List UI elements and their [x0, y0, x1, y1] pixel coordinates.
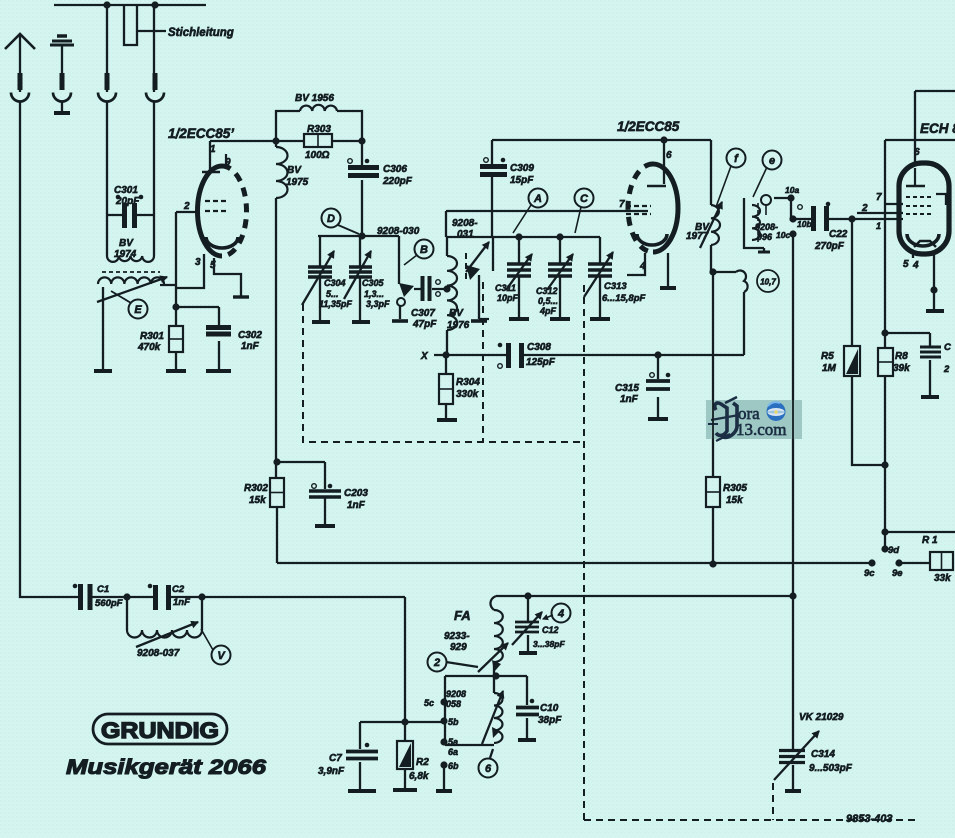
svg-text:270pF: 270pF: [814, 241, 845, 252]
svg-text:0,5...: 0,5...: [538, 296, 558, 306]
svg-text:C304: C304: [324, 278, 346, 288]
svg-text:C313: C313: [604, 281, 627, 292]
svg-text:6: 6: [666, 150, 672, 161]
svg-text:1,3...: 1,3...: [364, 289, 384, 299]
svg-text:031: 031: [457, 229, 474, 240]
svg-text:5b: 5b: [448, 717, 459, 727]
svg-text:9...503pF: 9...503pF: [809, 763, 853, 774]
svg-text:C305: C305: [362, 278, 385, 288]
svg-text:38pF: 38pF: [538, 715, 562, 726]
svg-text:-058: -058: [443, 699, 461, 709]
svg-text:C10: C10: [540, 703, 559, 714]
svg-text:9208-: 9208-: [452, 218, 478, 229]
svg-text:C309: C309: [510, 163, 534, 174]
svg-text:R5: R5: [821, 351, 834, 362]
svg-text:Stichleitung: Stichleitung: [168, 27, 234, 39]
svg-text:C7: C7: [329, 753, 342, 764]
svg-text:2: 2: [943, 364, 950, 375]
svg-text:1nF: 1nF: [347, 500, 366, 511]
svg-text:39k: 39k: [893, 363, 910, 374]
svg-text:4: 4: [557, 608, 564, 620]
svg-text:R301: R301: [140, 331, 164, 342]
svg-text:ECH 8: ECH 8: [920, 121, 955, 136]
svg-text:33k: 33k: [934, 573, 951, 584]
svg-text:5: 5: [903, 259, 909, 270]
svg-text:1/2ECC85: 1/2ECC85: [617, 119, 680, 134]
svg-text:6b: 6b: [448, 761, 459, 771]
svg-text:096: 096: [757, 232, 773, 242]
svg-text:1975: 1975: [286, 177, 309, 188]
svg-text:R 1: R 1: [922, 535, 938, 546]
svg-text:3: 3: [195, 257, 201, 268]
svg-text:2: 2: [433, 657, 440, 669]
svg-text:1nF: 1nF: [620, 394, 639, 405]
svg-text:560pF: 560pF: [95, 598, 123, 609]
svg-text:R8: R8: [895, 351, 908, 362]
svg-text:10,7: 10,7: [760, 278, 776, 287]
svg-text:2: 2: [183, 201, 190, 212]
svg-text:BV: BV: [449, 308, 464, 319]
svg-text:3,3pF: 3,3pF: [366, 299, 390, 309]
svg-text:9c: 9c: [864, 568, 875, 579]
svg-text:1: 1: [210, 144, 216, 155]
svg-text:9208: 9208: [446, 689, 466, 699]
svg-text:20pF: 20pF: [115, 196, 140, 207]
svg-text:GRUNDIG: GRUNDIG: [101, 718, 219, 743]
svg-text:R302: R302: [244, 483, 268, 494]
svg-text:R305: R305: [723, 483, 747, 494]
svg-text:15k: 15k: [249, 495, 266, 506]
svg-text:3...38pF: 3...38pF: [533, 639, 565, 649]
svg-text:C312: C312: [536, 286, 558, 296]
svg-text:4pF: 4pF: [539, 306, 557, 316]
svg-text:D: D: [327, 213, 335, 225]
svg-text:4: 4: [912, 260, 919, 271]
svg-text:C1: C1: [97, 584, 109, 595]
svg-text:1974: 1974: [114, 249, 137, 260]
svg-text:6a: 6a: [448, 747, 458, 757]
svg-text:B: B: [420, 244, 428, 256]
svg-text:9e: 9e: [892, 568, 903, 579]
svg-text:C301: C301: [114, 185, 138, 196]
svg-text:C314: C314: [811, 749, 835, 760]
svg-text:15pF: 15pF: [510, 175, 534, 186]
svg-text:X: X: [420, 351, 429, 362]
svg-text:9233-: 9233-: [444, 631, 470, 642]
svg-text:10a: 10a: [785, 185, 799, 195]
svg-text:A: A: [533, 193, 542, 205]
svg-text:1M: 1M: [822, 363, 837, 374]
svg-text:C: C: [944, 342, 951, 353]
svg-text:3,9nF: 3,9nF: [318, 766, 345, 777]
svg-text:9208-037: 9208-037: [137, 648, 180, 659]
svg-text:BV 1956: BV 1956: [295, 93, 334, 104]
svg-text:2: 2: [861, 203, 868, 214]
svg-text:1: 1: [876, 221, 881, 231]
svg-text:C311: C311: [495, 283, 516, 293]
svg-text:C302: C302: [238, 330, 262, 341]
svg-text:BV: BV: [119, 238, 134, 249]
svg-text:6,8k: 6,8k: [409, 771, 429, 782]
svg-text:9853-403: 9853-403: [846, 813, 893, 825]
svg-text:FA: FA: [454, 608, 471, 623]
svg-text:1nF: 1nF: [173, 597, 190, 608]
svg-text:1/2ECC85’: 1/2ECC85’: [168, 126, 234, 141]
svg-text:E: E: [134, 304, 142, 316]
svg-text:1976: 1976: [447, 320, 470, 331]
svg-text:C: C: [580, 193, 589, 205]
svg-text:1977: 1977: [686, 231, 709, 242]
svg-text:47pF: 47pF: [412, 319, 437, 330]
svg-text:C307: C307: [411, 308, 435, 319]
svg-text:9208-030: 9208-030: [377, 226, 420, 237]
svg-text:7: 7: [876, 192, 882, 203]
svg-text:10c: 10c: [776, 230, 790, 240]
svg-text:9208-: 9208-: [755, 222, 778, 232]
svg-text:220pF: 220pF: [382, 176, 413, 187]
svg-text:5c: 5c: [424, 698, 434, 708]
svg-text:4: 4: [639, 261, 646, 272]
svg-text:6: 6: [914, 147, 920, 158]
svg-text:10b: 10b: [797, 219, 812, 229]
svg-text:929: 929: [450, 642, 467, 653]
svg-text:C203: C203: [344, 488, 368, 499]
svg-text:125pF: 125pF: [526, 357, 556, 368]
svg-text:330k: 330k: [456, 389, 479, 400]
svg-text:1nF: 1nF: [241, 341, 260, 352]
svg-text:R303: R303: [307, 124, 331, 135]
svg-text:10pF: 10pF: [497, 293, 519, 303]
svg-text:e: e: [769, 155, 775, 167]
svg-text:R2: R2: [416, 757, 429, 768]
svg-text:11,35pF: 11,35pF: [319, 299, 352, 309]
svg-text:R304: R304: [456, 377, 480, 388]
svg-text:VK 21029: VK 21029: [799, 712, 844, 723]
svg-text:5: 5: [210, 260, 216, 271]
svg-text:15k: 15k: [726, 495, 743, 506]
svg-text:100Ω: 100Ω: [305, 150, 330, 161]
svg-text:9: 9: [225, 157, 231, 168]
svg-text:C315: C315: [615, 383, 639, 394]
svg-text:C2: C2: [172, 584, 185, 595]
svg-text:C22: C22: [829, 229, 848, 240]
svg-text:5...: 5...: [326, 289, 339, 299]
svg-text:13.com: 13.com: [736, 420, 787, 439]
svg-text:6: 6: [485, 763, 492, 775]
svg-text:6...15,8pF: 6...15,8pF: [602, 293, 645, 304]
svg-text:7: 7: [619, 199, 625, 210]
svg-text:Musikgerät 2066: Musikgerät 2066: [66, 755, 267, 779]
svg-text:BV: BV: [287, 165, 302, 176]
svg-text:9d: 9d: [888, 545, 899, 556]
svg-text:C306: C306: [383, 164, 407, 175]
svg-text:5a: 5a: [448, 737, 458, 747]
svg-text:C308: C308: [527, 342, 551, 353]
svg-text:C12: C12: [542, 625, 559, 635]
svg-text:470k: 470k: [137, 342, 161, 353]
